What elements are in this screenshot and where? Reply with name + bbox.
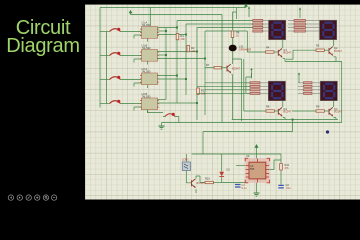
power flag PWR5 [250, 68, 252, 70]
svg-text:10k: 10k [191, 49, 196, 53]
capacitor C2 [278, 185, 284, 188]
power flag PWR1 [245, 4, 247, 7]
wire rail y119.5 [232, 119, 338, 121]
ground GND1 [161, 123, 163, 127]
svg-text:74LS90: 74LS90 [142, 23, 152, 27]
svg-text:R4: R4 [266, 46, 270, 50]
wire U2:A outputs [158, 75, 177, 77]
switch SW1 [110, 29, 121, 32]
counter IC U1:B 74LS90 [141, 50, 157, 62]
wire bottom into U3 [222, 182, 246, 184]
wire clock drop x150 [149, 8, 151, 27]
wire U2:B pin down [148, 110, 164, 113]
wire PWR7 to U3 [256, 149, 258, 158]
speaker LS1 [229, 45, 237, 52]
wire speaker branch top [233, 12, 237, 30]
wire R11 down [280, 171, 282, 185]
svg-text:U3: U3 [246, 154, 250, 158]
counter IC U1:A 74LS90 [141, 27, 157, 39]
svg-text:.01u: .01u [286, 186, 292, 190]
resistor pack RN3 [250, 82, 268, 95]
power flag PWR4 [299, 7, 301, 9]
wire vertical x241 to rail [233, 59, 242, 121]
wire BCD lines to RN3 [205, 82, 250, 84]
transistor Q2 [329, 46, 342, 56]
wire switch bus x106 [106, 32, 108, 104]
resistor R4 [266, 51, 274, 53]
resistor R11 [280, 164, 283, 171]
wire R5 to Q2 [324, 49, 329, 51]
wire SW1 to IC [121, 31, 142, 33]
schematic grid sheet [85, 5, 360, 200]
resistor R7 [214, 67, 222, 69]
wire Q2 collector to DISP2 [333, 40, 335, 47]
wire feed to Q2 branch [286, 58, 293, 60]
transistor Q3 [278, 107, 291, 117]
wire to switch SW4 [100, 103, 110, 105]
wire drop x203 [202, 132, 204, 155]
resistor pack RN4 [298, 82, 320, 95]
player control icons [8, 195, 57, 200]
7-segment display DISP4 [320, 81, 337, 101]
wire clock stub row 1 [134, 35, 141, 39]
wire SW5 to rail [163, 117, 179, 123]
svg-text:R8: R8 [266, 105, 270, 109]
wire IC bottom stub row 2 [147, 61, 149, 64]
wire Q1 collector to DISP1 [282, 40, 284, 48]
wire IC bottom stub row 1 [147, 38, 149, 41]
svg-text:0.1u: 0.1u [242, 186, 248, 190]
wire Q3 collector to DISP3 [282, 101, 284, 107]
wire to switch SW2 [100, 55, 110, 57]
bus vertical x166 [165, 28, 167, 100]
resistor R3 [197, 88, 200, 94]
wire SW3 to IC [121, 79, 142, 81]
resistor R9 [316, 110, 324, 112]
wire U2:B outputs [158, 99, 166, 101]
wire into U3 pin2 [236, 165, 245, 167]
wire to switch SW1 [100, 31, 110, 33]
wire U3 right pins [270, 160, 281, 170]
video title [0, 20, 86, 55]
counter IC U2:B 74LS90 [141, 98, 157, 110]
wire Q4 emitter down [334, 118, 337, 120]
wire clock stub row 3 [134, 83, 141, 87]
7-segment display DISP3 [268, 81, 285, 101]
wire second top rail [131, 14, 223, 16]
wire Q2 base [293, 50, 316, 59]
power flag PWR2 [129, 11, 131, 15]
wire RN3 feed vertical [246, 73, 252, 93]
wire U3 right to R11 [280, 154, 282, 163]
svg-text:BC547: BC547 [334, 49, 342, 53]
svg-text:D1: D1 [227, 168, 231, 172]
wire IC bottom stub row 3 [147, 85, 149, 88]
svg-text:LDR1: LDR1 [182, 158, 189, 162]
transistor Q1 [278, 48, 291, 58]
power flag PWR7 [255, 145, 258, 149]
wire R9 to Q4 [324, 110, 329, 112]
svg-text:BC547: BC547 [197, 181, 205, 185]
bus vertical x197 [196, 28, 198, 121]
resistor R2 [187, 46, 190, 52]
wire clock stub row 4 [134, 107, 141, 111]
transistor Q5 [227, 64, 240, 73]
wire left vertical bus [99, 8, 101, 108]
resistor R5 [316, 49, 324, 51]
wire U1:A outputs [158, 27, 177, 29]
wire LDR1 to Q6 base [186, 171, 191, 183]
resistor R10 [205, 181, 214, 183]
counter IC U2:A 74LS90 [141, 73, 157, 85]
wire SW4 to IC [121, 103, 142, 105]
junction dot rail [292, 119, 294, 121]
wire Q3 base [244, 110, 266, 112]
wire rail y122.5 [162, 122, 342, 124]
junction dots [165, 27, 206, 105]
wire Q6 collector to R10 [196, 176, 205, 183]
wire IC bottom stub row 4 [147, 110, 149, 113]
switch SW4 [110, 101, 121, 104]
bus vertical x177 [176, 21, 178, 104]
svg-text:R10: R10 [205, 177, 210, 181]
svg-text:BC547: BC547 [283, 110, 291, 114]
svg-text:R5: R5 [316, 44, 320, 48]
bus vertical x205 [204, 31, 206, 115]
switch SW5 [165, 114, 175, 117]
svg-text:74LS90: 74LS90 [142, 69, 152, 73]
wire vertical x243.8 [243, 59, 245, 111]
svg-text:47k: 47k [285, 166, 290, 170]
wire R7 to Q5 base [222, 67, 227, 69]
capacitor C1 [235, 185, 241, 188]
wire SW2 to IC [121, 55, 142, 57]
wire U3 bottom to ground [256, 183, 258, 193]
7-segment display DISP1 [269, 20, 286, 40]
resistor R8 [266, 110, 274, 112]
wire speaker to Q5 collector [232, 51, 234, 64]
svg-text:555: 555 [250, 167, 255, 171]
svg-text:74LS90: 74LS90 [142, 94, 152, 98]
wire mid vertical bus x222 [221, 15, 223, 123]
wire clock stub row 2 [134, 59, 141, 63]
wire Q1 base [247, 31, 265, 52]
wire right vertical x341 [341, 62, 343, 123]
resistor R6 [231, 31, 234, 38]
svg-text:74LS90: 74LS90 [142, 46, 152, 50]
wire R4 to Q1 [274, 51, 278, 53]
wire rail y153 [192, 153, 281, 155]
wire drop x292 [292, 120, 294, 132]
svg-text:BC547: BC547 [232, 66, 240, 70]
svg-text:R9: R9 [316, 105, 320, 109]
switch SW3 [110, 77, 121, 80]
ground GND2 [254, 193, 260, 196]
wire Q5 emitter down [232, 74, 233, 119]
svg-text:R7: R7 [206, 63, 210, 67]
wire U1:B outputs [158, 51, 197, 53]
wire R10 to D1 [214, 182, 222, 184]
svg-text:SPEAKER: SPEAKER [239, 48, 251, 52]
wire Q3 emitter down [283, 118, 285, 120]
wire Q4 collector to DISP4 [333, 101, 335, 107]
svg-text:BC547: BC547 [283, 51, 291, 55]
bus vertical x186 [185, 24, 187, 95]
LDR LDR1 [185, 154, 187, 162]
wire vertical drop x236 [235, 8, 237, 20]
svg-text:BC547: BC547 [334, 110, 342, 114]
timer U3 555 highlighted [245, 158, 269, 183]
power flag PWR3 [248, 6, 250, 8]
wire Q2 emitter down [334, 57, 337, 62]
wire top VCC rail [100, 7, 246, 9]
transistor Q4 [329, 107, 342, 117]
wire BCD lines to RN1 [177, 20, 253, 22]
wire Q4 base [292, 110, 316, 112]
diode D1 [221, 154, 223, 183]
resistor pack RN1 [253, 19, 269, 32]
resistor R1 [176, 34, 179, 40]
resistor pack RN2 [288, 19, 320, 32]
node marker [326, 130, 329, 133]
power flag PWR6 [298, 72, 300, 74]
wire bus to R7 [205, 67, 214, 69]
7-segment display DISP2 [320, 20, 337, 40]
wire Q1 emitter down [283, 59, 285, 62]
svg-text:10k: 10k [181, 37, 186, 41]
wire to switch SW3 [100, 79, 110, 81]
wire Q6 emitter [195, 189, 197, 193]
wire emitter rail row1 [285, 61, 342, 63]
wire rail y131.5 [203, 131, 293, 133]
transistor Q6 [192, 179, 205, 188]
wire R6 to speaker [232, 38, 234, 45]
wire R8 to Q3 [274, 110, 278, 112]
switch SW2 [110, 53, 121, 56]
